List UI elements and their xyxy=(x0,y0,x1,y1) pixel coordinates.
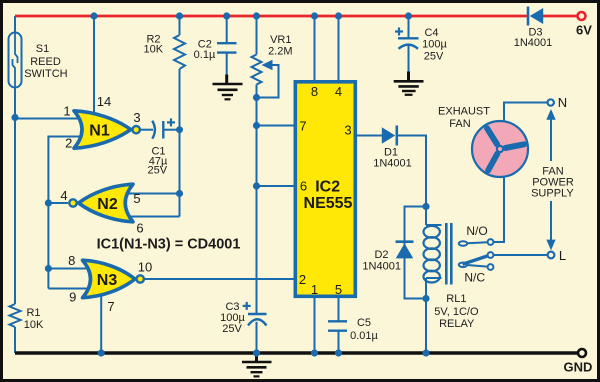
wire N1 pin14 xyxy=(93,16,95,118)
relay contact N/O oval xyxy=(459,241,467,246)
svg-text:VR1: VR1 xyxy=(270,34,291,46)
exhaust fan xyxy=(472,121,528,177)
relay core bars xyxy=(445,223,448,285)
svg-text:RL1: RL1 xyxy=(446,293,466,305)
junction rail / VR1 xyxy=(253,12,260,19)
wire IC2 pin5 to C5 xyxy=(338,297,340,321)
relay arm xyxy=(463,256,489,264)
wire N1 pin2 xyxy=(48,137,80,289)
terminal GND xyxy=(578,349,586,357)
fan bottom wire to N/O xyxy=(494,177,505,242)
svg-text:D2: D2 xyxy=(374,249,388,261)
svg-text:N1: N1 xyxy=(89,123,110,140)
svg-text:6: 6 xyxy=(136,221,143,236)
ground symbol C2 xyxy=(213,75,243,100)
wire D1 to relay corner xyxy=(397,136,427,207)
NOR gate N2 (mirrored) xyxy=(69,184,133,222)
svg-text:0.01µ: 0.01µ xyxy=(350,330,378,342)
terminal 6V xyxy=(578,12,586,20)
junction D1 / D2 / relay top xyxy=(422,203,429,210)
svg-text:7: 7 xyxy=(107,299,114,314)
wire C2 column top xyxy=(226,16,228,43)
svg-text:4: 4 xyxy=(60,188,67,203)
svg-text:6V: 6V xyxy=(576,23,592,38)
wire N2 pin5 xyxy=(126,193,180,195)
wire C3 to ground rail xyxy=(256,322,258,353)
svg-text:C4: C4 xyxy=(424,27,438,39)
junction rail / IC2 pin8 xyxy=(311,12,318,19)
capacitor C3 plates xyxy=(248,313,267,315)
svg-text:1N4001: 1N4001 xyxy=(362,261,401,273)
relay coil loops xyxy=(424,226,440,238)
svg-text:10K: 10K xyxy=(144,44,164,56)
junction rail / N1 pin14 xyxy=(90,12,97,19)
junction rail / C2 xyxy=(223,12,230,19)
plus C3 xyxy=(243,302,251,310)
plus C1 xyxy=(167,118,175,126)
svg-text:8: 8 xyxy=(68,253,75,268)
wire D2 through and bottom branch xyxy=(405,242,427,299)
wire R2 bottom to N2 inputs xyxy=(179,69,181,217)
IC2 NE555 body xyxy=(295,82,355,296)
svg-text:C5: C5 xyxy=(357,317,371,329)
svg-text:25V: 25V xyxy=(222,323,242,335)
reed switch S1 xyxy=(9,33,22,88)
svg-text:4: 4 xyxy=(335,84,342,99)
capacitor C5 plates xyxy=(328,320,347,322)
wire VR1 column top xyxy=(256,16,258,55)
junction N2 output / N1 pin2 column xyxy=(45,199,52,206)
relay coil bottom jog xyxy=(426,277,442,279)
svg-text:S1: S1 xyxy=(36,43,49,55)
svg-text:6: 6 xyxy=(300,179,307,194)
wire C4 to ground xyxy=(408,46,410,74)
fan supply line lower xyxy=(550,201,552,241)
junction ground rail / C5 xyxy=(335,349,342,356)
ground rail (black) xyxy=(15,349,586,357)
capacitor C4 plates xyxy=(398,37,419,39)
junction R2 column / N2 pin5 xyxy=(176,190,183,197)
wire N3 output to IC2 pin2 xyxy=(145,278,297,280)
junction ground rail / relay xyxy=(422,349,429,356)
wire N2 output xyxy=(48,202,68,204)
VR1 wiper arrow xyxy=(262,60,273,70)
wire S1 column top xyxy=(14,16,16,33)
junction ground rail / IC2 pin1 xyxy=(311,349,318,356)
wire IC2 pin1 to rail xyxy=(314,297,316,353)
diode D2 xyxy=(396,242,414,259)
relay contact N/O circle xyxy=(488,239,494,245)
junction C1 / R2 column xyxy=(176,126,183,133)
resistor R2 xyxy=(174,35,185,69)
wire N3 pin8 xyxy=(48,268,92,270)
terminal N xyxy=(548,99,554,105)
ground symbol C3 xyxy=(242,354,272,376)
svg-text:1N4001: 1N4001 xyxy=(514,37,553,49)
svg-text:9: 9 xyxy=(69,290,76,305)
relay contact N/C oval xyxy=(459,263,467,268)
svg-text:IC2: IC2 xyxy=(315,179,340,196)
wire relay column xyxy=(425,207,427,226)
junction ground rail / C3 xyxy=(253,349,260,356)
arrow up (to N) xyxy=(546,109,555,120)
svg-text:GND: GND xyxy=(564,360,593,375)
wire C5 to rail xyxy=(338,331,340,353)
wire S1 column bottom to R1 xyxy=(14,87,16,304)
junction rail / IC2 pin4 xyxy=(335,12,342,19)
svg-text:N2: N2 xyxy=(97,196,118,213)
svg-text:3: 3 xyxy=(344,123,351,138)
wire IC2 pin3 to D1 xyxy=(356,135,382,137)
VR1 wiper loop xyxy=(257,65,279,98)
wire C1 to R2 column xyxy=(164,129,180,131)
svg-text:REED: REED xyxy=(30,56,61,68)
supply rail 6V (red) xyxy=(15,12,586,20)
junction VR1 wiper xyxy=(253,94,260,101)
wire pole to L xyxy=(494,254,548,256)
diode D3 xyxy=(528,7,543,26)
svg-text:N/C: N/C xyxy=(464,271,485,285)
wire N/O oval to circle xyxy=(467,242,487,243)
ground symbol C4 xyxy=(394,72,424,95)
wire D2 top branch xyxy=(405,207,427,242)
svg-text:L: L xyxy=(559,248,566,263)
svg-text:10K: 10K xyxy=(24,319,44,331)
arrow down (to L) xyxy=(546,240,555,251)
svg-text:NE555: NE555 xyxy=(304,195,353,212)
junction rail / R2 xyxy=(176,12,183,19)
capacitor C2 plates xyxy=(217,42,237,44)
wire IC2 pin4 xyxy=(338,16,340,81)
fan top wire to N xyxy=(504,103,547,122)
svg-text:EXHAUST: EXHAUST xyxy=(438,106,490,118)
diode D1 xyxy=(382,126,397,146)
svg-text:5: 5 xyxy=(335,282,342,297)
capacitor C1 (polarized, horizontal) xyxy=(152,121,163,139)
wire N3 pin7 xyxy=(100,293,102,353)
relay contact N/C circle xyxy=(488,264,494,270)
junction IC2 pin6 xyxy=(253,182,260,189)
terminal L xyxy=(548,252,555,259)
svg-text:5: 5 xyxy=(133,191,140,206)
svg-text:N/O: N/O xyxy=(466,224,487,238)
svg-text:25V: 25V xyxy=(148,165,168,177)
svg-text:1: 1 xyxy=(311,282,318,297)
wire IC2 pin8 xyxy=(314,16,316,81)
NOR gate N1 xyxy=(74,111,140,148)
wire IC2 pin7 xyxy=(257,125,297,127)
svg-text:RELAY: RELAY xyxy=(439,318,475,330)
svg-text:0.1µ: 0.1µ xyxy=(194,49,216,61)
NOR gate N3 xyxy=(83,260,144,298)
svg-text:10: 10 xyxy=(138,260,152,275)
wire N1 pin1 xyxy=(15,118,80,120)
relay pole circle xyxy=(488,252,494,258)
svg-text:SUPPLY: SUPPLY xyxy=(531,188,574,200)
svg-text:1N4001: 1N4001 xyxy=(373,158,412,170)
wire VR1 column down to C3 xyxy=(256,85,258,315)
svg-text:R1: R1 xyxy=(26,307,40,319)
svg-text:14: 14 xyxy=(97,94,111,109)
wire R2 column top xyxy=(179,16,181,35)
plus C4 xyxy=(395,28,403,36)
svg-text:7: 7 xyxy=(299,119,306,134)
svg-text:SWITCH: SWITCH xyxy=(24,68,67,80)
potentiometer VR1 xyxy=(252,55,262,85)
wire N2 pin6 xyxy=(126,216,180,218)
wire R1 to ground rail xyxy=(14,327,16,353)
svg-text:2: 2 xyxy=(65,136,72,151)
wire N/C oval to circle xyxy=(467,265,487,267)
wire C4 column top xyxy=(408,16,410,38)
wire IC2 pin6 xyxy=(257,185,297,187)
svg-text:2: 2 xyxy=(299,272,306,287)
svg-text:25V: 25V xyxy=(424,51,444,63)
resistor R1 xyxy=(10,304,21,327)
svg-text:5V, 1C/O: 5V, 1C/O xyxy=(434,306,479,318)
wire relay bottom to rail xyxy=(425,299,427,354)
wire N1 output to C1 xyxy=(140,129,153,131)
junction S1 / N1 pin1 xyxy=(11,114,18,121)
wire N3 pin9 xyxy=(48,288,92,290)
relay coil top jog xyxy=(426,224,442,226)
wire C2 to ground xyxy=(226,53,228,76)
junction rail / C4 xyxy=(405,12,412,19)
svg-text:N3: N3 xyxy=(97,272,118,289)
junction N3 pin8 column xyxy=(45,265,52,272)
junction IC2 pin7 xyxy=(253,122,260,129)
svg-text:FAN: FAN xyxy=(449,118,470,130)
svg-text:IC1(N1-N3) = CD4001: IC1(N1-N3) = CD4001 xyxy=(97,237,241,253)
svg-text:100µ: 100µ xyxy=(422,39,447,51)
svg-text:1: 1 xyxy=(63,104,70,119)
svg-text:8: 8 xyxy=(311,84,318,99)
junction ground rail / N3 pin7 xyxy=(98,349,105,356)
junction D2 / relay bottom xyxy=(422,295,429,302)
svg-text:3: 3 xyxy=(133,110,140,125)
fan supply line upper xyxy=(550,118,552,161)
svg-text:2.2M: 2.2M xyxy=(268,46,292,58)
svg-text:N: N xyxy=(558,95,567,110)
